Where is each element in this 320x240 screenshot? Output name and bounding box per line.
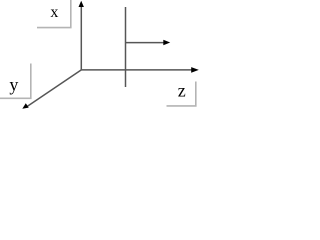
svg-text:z: z bbox=[178, 80, 186, 100]
svg-text:x: x bbox=[50, 4, 58, 21]
svg-text:y: y bbox=[9, 74, 18, 94]
